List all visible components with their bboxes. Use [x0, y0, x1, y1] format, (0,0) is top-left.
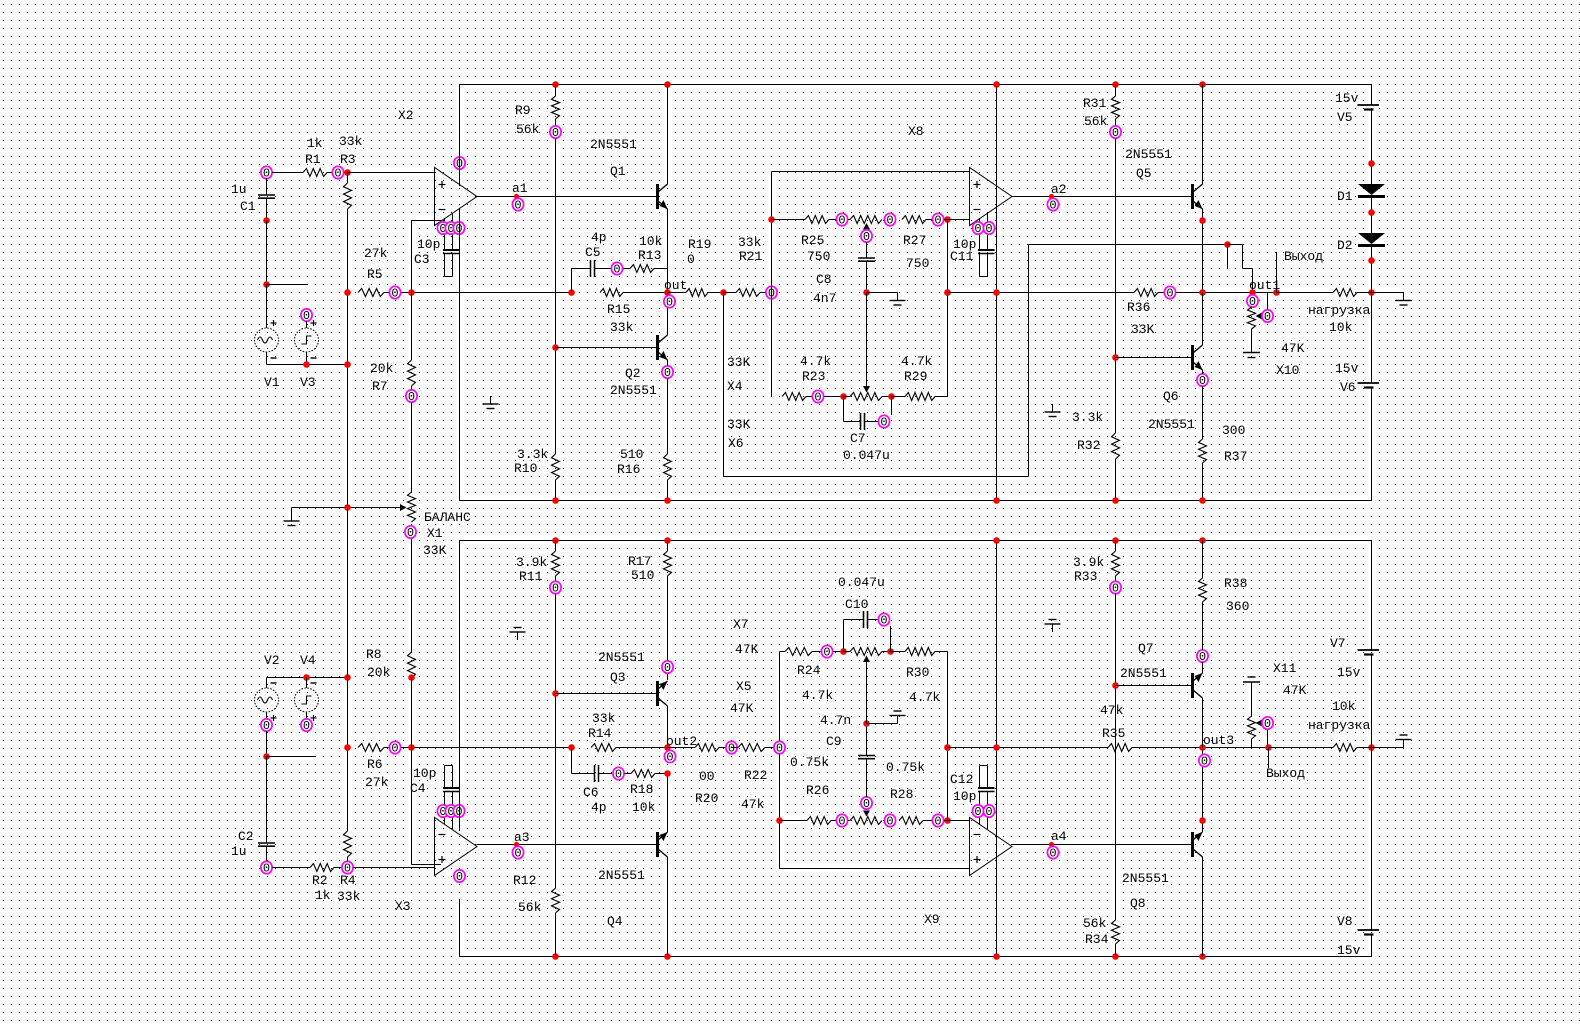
junction X8 right mid [944, 289, 951, 296]
svg-text:750: 750 [906, 256, 929, 271]
svg-text:2N5551: 2N5551 [1120, 666, 1167, 681]
junction C5 column [568, 289, 575, 296]
svg-text:0: 0 [514, 199, 521, 213]
node R6 marker [389, 741, 400, 755]
wire X9 right column [947, 652, 949, 821]
node R24 marker [821, 645, 832, 659]
wire X9 box bottom edge [780, 868, 970, 870]
resistor R15 [600, 289, 623, 297]
ground load1 [1403, 293, 1405, 301]
svg-text:510: 510 [620, 447, 643, 462]
wire V7 to out3 junction [1371, 655, 1373, 748]
node R1-R3 marker [332, 166, 343, 180]
svg-text:0: 0 [728, 742, 735, 756]
svg-text:a4: a4 [1051, 829, 1067, 844]
ground X9 [897, 716, 899, 724]
wire X11 wiper stub [1267, 730, 1269, 748]
wire top supply rail [460, 84, 1372, 86]
junction bus2 R11 [552, 537, 559, 544]
ground load2 [1403, 740, 1405, 748]
svg-text:R36: R36 [1127, 300, 1150, 315]
resistor R19 [668, 292, 687, 294]
svg-text:33K: 33K [1131, 322, 1155, 337]
svg-text:56k: 56k [518, 900, 542, 915]
junction rail Q5 collector [1199, 81, 1206, 88]
svg-text:R1: R1 [305, 152, 321, 167]
svg-text:0: 0 [1166, 287, 1173, 301]
node markers at C3 [437, 222, 448, 236]
svg-text:56k: 56k [1083, 916, 1107, 931]
junction X10 top [1249, 289, 1256, 296]
resistor R5 [358, 289, 384, 297]
svg-text:0: 0 [934, 214, 941, 228]
svg-text:1u: 1u [231, 844, 247, 859]
svg-text:C11: C11 [950, 249, 974, 264]
svg-text:Q4: Q4 [607, 914, 623, 929]
wire R5 to R7 junction [401, 292, 420, 294]
wire stub V4 bottom [267, 756, 317, 758]
svg-text:V1: V1 [264, 375, 280, 390]
svg-text:C12: C12 [950, 772, 973, 787]
svg-text:0: 0 [263, 862, 270, 876]
svg-text:33k: 33k [592, 711, 616, 726]
wire opamp X8 out to Q5 base [1012, 196, 1191, 198]
svg-text:750: 750 [807, 249, 830, 264]
svg-text:0: 0 [1049, 199, 1056, 213]
svg-text:R3: R3 [340, 152, 356, 167]
svg-text:0: 0 [974, 805, 981, 819]
wire R36 to Q6 collector [1176, 292, 1277, 294]
resistor R22 [732, 747, 739, 749]
svg-text:47K: 47K [730, 701, 754, 716]
junction C10 right [887, 648, 894, 655]
capacitor C3 [444, 218, 446, 250]
junction R16 bus [664, 497, 671, 504]
wire V2 to C2 [266, 757, 268, 844]
resistor R12 [552, 888, 560, 913]
svg-text:R10: R10 [514, 461, 537, 476]
resistor R11 [555, 541, 557, 552]
node R5 marker [389, 286, 400, 300]
svg-text:1k: 1k [307, 136, 323, 151]
capacitor C1 [266, 178, 268, 195]
resistor R9 [555, 85, 557, 97]
wire feedback loop right up [1028, 245, 1030, 477]
svg-text:4.7k: 4.7k [901, 354, 932, 369]
svg-text:R13: R13 [638, 248, 661, 263]
svg-text:56k: 56k [1084, 114, 1108, 129]
ground balance [291, 508, 293, 514]
resistor R21 [724, 292, 737, 294]
svg-text:0: 0 [985, 222, 992, 236]
resistor R18 [625, 773, 632, 775]
transistor Q4 [656, 832, 659, 857]
wire out3 row [997, 747, 1109, 749]
svg-text:X11: X11 [1273, 661, 1297, 676]
svg-text:0: 0 [886, 815, 893, 829]
svg-text:0: 0 [1264, 310, 1271, 324]
svg-text:R23: R23 [802, 369, 825, 384]
svg-text:V8: V8 [1337, 914, 1353, 929]
svg-text:0: 0 [552, 582, 559, 596]
svg-text:20k: 20k [370, 361, 394, 376]
ground near R33 [1052, 624, 1054, 632]
svg-text:0: 0 [514, 847, 521, 861]
svg-text:R38: R38 [1224, 576, 1247, 591]
svg-text:C10: C10 [845, 597, 868, 612]
svg-text:47k: 47k [1100, 703, 1124, 718]
svg-text:X4: X4 [727, 379, 743, 394]
diode D1 [1358, 184, 1385, 195]
source V3 pulse [301, 309, 312, 323]
node R27 right marker [932, 213, 943, 227]
svg-text:0: 0 [886, 214, 893, 228]
resistor R24 [780, 651, 786, 653]
junction staircase [1224, 241, 1231, 248]
wire fb node to opamp minus corner [411, 221, 413, 293]
wire X3 box top bus [460, 540, 1372, 542]
svg-text:2N5551: 2N5551 [610, 383, 657, 398]
node R7 bottom marker [406, 390, 417, 404]
svg-text:R20: R20 [695, 791, 718, 806]
junction Q8 emitter [1199, 817, 1206, 824]
potentiometer X11 [1251, 739, 1253, 748]
svg-text:10k: 10k [1332, 699, 1356, 714]
svg-text:X10: X10 [1276, 363, 1299, 378]
wire X10 wiper stub [1267, 293, 1269, 311]
wire R23 to C7 junction [824, 396, 844, 398]
junction feedback loop left [720, 289, 727, 296]
wire Vyhod stub top [1276, 252, 1278, 293]
resistor R23 [782, 393, 806, 401]
svg-text:0: 0 [303, 719, 310, 733]
wire Q6 emitter to R37 [1202, 370, 1204, 374]
svg-text:0: 0 [985, 805, 992, 819]
svg-text:C4: C4 [410, 781, 426, 796]
node pot5 right marker [884, 814, 895, 828]
wire stub to V3 plus [267, 284, 309, 286]
junction rowA right [944, 216, 951, 223]
svg-text:Q7: Q7 [1138, 641, 1154, 656]
svg-text:R16: R16 [617, 462, 640, 477]
svg-text:0: 0 [1264, 717, 1271, 731]
junction bus2 R38 [1199, 537, 1206, 544]
junction R8 bottom [408, 674, 415, 681]
wire Q2 emitter to R16 [667, 360, 669, 366]
junction V2 bottom [263, 753, 270, 760]
node R25 marker [836, 213, 847, 227]
svg-text:15v: 15v [1337, 665, 1361, 680]
svg-text:4.7k: 4.7k [909, 690, 940, 705]
svg-text:R2: R2 [312, 873, 328, 888]
potentiometer X4 top [848, 219, 850, 221]
wire out row to R36 [997, 292, 1135, 294]
resistor R16 [664, 454, 672, 480]
source V2 sine [266, 678, 268, 689]
svg-text:R7: R7 [372, 379, 388, 394]
junction top rail R3col bottom [344, 674, 351, 681]
resistor R27 [902, 216, 926, 224]
node R36 marker [1164, 286, 1175, 300]
node Q6 emitter marker [1197, 374, 1208, 388]
node R33 marker [1110, 581, 1121, 595]
svg-text:20k: 20k [367, 665, 391, 680]
junction rail Q1 collector [664, 81, 671, 88]
wire feedback loop bottom [724, 476, 1029, 478]
svg-text:4n7: 4n7 [813, 291, 836, 306]
svg-text:R28: R28 [890, 787, 913, 802]
svg-text:R33: R33 [1074, 569, 1097, 584]
wire rail corner down to V5 [1371, 85, 1373, 106]
junction C7 left [840, 393, 847, 400]
wire Q3 base row [556, 693, 657, 695]
ground X10 [1251, 329, 1253, 353]
capacitor C8 [866, 242, 868, 258]
wire V6 to bus corner [1371, 388, 1373, 501]
resistor R7 [411, 293, 413, 361]
wire V5 to D1 [1371, 110, 1373, 184]
wire rowA2 to opamp X9 [944, 820, 970, 822]
svg-text:27k: 27k [364, 246, 388, 261]
svg-text:0: 0 [880, 416, 887, 430]
node R31 marker [1110, 126, 1121, 140]
svg-text:0: 0 [823, 646, 830, 660]
junction rowA2 right [944, 817, 951, 824]
wire V8 to rail2 corner [1371, 935, 1373, 957]
junction bottom rail to R3 column [344, 361, 351, 368]
svg-text:2N5551: 2N5551 [590, 137, 637, 152]
junction D2 out [1368, 257, 1375, 264]
wire Q7 base row [1116, 685, 1192, 687]
junction out1 [1273, 289, 1280, 296]
junction V4 top [303, 674, 310, 681]
transistor Q2 [656, 335, 659, 360]
wire Q6 base row [1116, 357, 1192, 359]
wire Q2 collector to out [667, 293, 669, 336]
node out marker [664, 295, 675, 309]
svg-text:R4: R4 [340, 873, 356, 888]
wire X2 box right edge [996, 85, 998, 501]
capacitor C6 [571, 748, 573, 774]
node markers at C4 [437, 805, 448, 819]
battery V5 [1358, 104, 1380, 106]
potentiometer X7 top pot [850, 648, 882, 656]
wire R32 to bus [1115, 459, 1117, 501]
wire X1 to R8 [411, 539, 413, 652]
junction X9 right mid [944, 744, 951, 751]
svg-text:Q5: Q5 [1136, 166, 1152, 181]
op-amp X3 [435, 818, 478, 876]
node R20 marker [726, 741, 737, 755]
wire to ground right [1372, 292, 1404, 294]
junction rail2 R12 [552, 953, 559, 960]
wire R14 to out2 [616, 747, 668, 749]
potentiometer X1 BALANCE [408, 492, 416, 522]
svg-text:47k: 47k [741, 797, 765, 812]
node markers at C11 [972, 222, 983, 236]
junction V3 bottom [303, 361, 310, 368]
svg-text:a1: a1 [512, 181, 528, 196]
transistor Q6 [1191, 345, 1194, 370]
junction C12 wire [944, 744, 951, 751]
svg-text:out1: out1 [1249, 278, 1280, 293]
potentiometer X10 [1247, 295, 1258, 309]
node C2 bottom marker [261, 861, 272, 875]
junction R5-R7-C3 node [408, 289, 415, 296]
wire V2 V4 top rail [267, 677, 348, 679]
svg-text:15v: 15v [1335, 361, 1359, 376]
wire fb node down to opamp corner [411, 748, 413, 865]
junction Q6 base [1112, 354, 1119, 361]
svg-text:X3: X3 [395, 899, 411, 914]
resistor load2 10k [1333, 744, 1357, 752]
junction V1 plus node [263, 281, 270, 288]
svg-text:2N5551: 2N5551 [598, 868, 645, 883]
wire Q4 collector to rail2 [667, 857, 669, 957]
svg-text:2N5551: 2N5551 [1125, 147, 1172, 162]
svg-text:R5: R5 [367, 267, 383, 282]
wire X2 box left edge [459, 208, 461, 501]
junction box edge out3 [993, 744, 1000, 751]
svg-text:3.9k: 3.9k [516, 555, 547, 570]
svg-text:R12: R12 [513, 873, 536, 888]
svg-text:X7: X7 [733, 617, 749, 632]
node R23 marker [812, 390, 823, 404]
svg-text:33K: 33K [423, 543, 447, 558]
node above opamp marker [454, 157, 465, 171]
wire X2 box bottom bus [460, 500, 1372, 502]
wire R8 bottom to R6 junction [411, 678, 413, 748]
svg-text:33k: 33k [738, 235, 762, 250]
junction C10 left [840, 648, 847, 655]
resistor R34 [1112, 920, 1120, 944]
wire C9 to ground [867, 723, 898, 725]
wire X3 box right edge [996, 541, 998, 957]
junction R10 bus2 [993, 497, 1000, 504]
junction D1 D2 [1368, 209, 1375, 216]
svg-text:R8: R8 [366, 647, 382, 662]
capacitor C9 [866, 724, 868, 756]
node R11 marker [550, 581, 561, 595]
svg-text:R30: R30 [906, 665, 929, 680]
resistor R13 [623, 268, 630, 270]
junction R4 top [344, 744, 351, 751]
svg-text:0: 0 [391, 742, 398, 756]
wire bottom supply rail [460, 956, 1372, 958]
wire rowA to opamp X8 [944, 219, 970, 221]
wire Q5 emitter down [1202, 209, 1204, 293]
capacitor C12 [980, 765, 988, 767]
resistor R30 [891, 651, 906, 653]
svg-text:R21: R21 [739, 249, 763, 264]
wire R17 to Q3 emitter [667, 576, 669, 680]
svg-text:2N5551: 2N5551 [1148, 417, 1195, 432]
potentiometer X6 bottom [850, 393, 882, 401]
junction rail2 box right [993, 953, 1000, 960]
svg-text:БАЛАНС: БАЛАНС [424, 510, 471, 525]
svg-text:0: 0 [664, 661, 671, 675]
svg-text:C9: C9 [826, 734, 842, 749]
wire Q7 collector to out3 [1202, 698, 1204, 748]
svg-text:R37: R37 [1224, 449, 1247, 464]
junction V5 D1 [1368, 160, 1375, 167]
wire C2 to R2 [272, 867, 310, 869]
junction rail box right [993, 81, 1000, 88]
battery V6 [1358, 382, 1380, 384]
source V1 sine [266, 285, 268, 329]
svg-text:10p: 10p [953, 789, 976, 804]
junction R5 left [344, 289, 351, 296]
resistor R8 [408, 652, 416, 678]
svg-text:3.9k: 3.9k [1073, 555, 1104, 570]
junction rail2 R34 [1112, 953, 1119, 960]
svg-text:Выход: Выход [1266, 766, 1305, 781]
node R28 right marker [932, 814, 943, 828]
junction Q2 base [552, 344, 559, 351]
svg-text:0: 0 [666, 751, 673, 765]
svg-text:0.75k: 0.75k [790, 755, 829, 770]
resistor R1 [303, 169, 327, 177]
capacitor C4 [445, 765, 453, 767]
transistor Q3 [656, 681, 659, 706]
node C6-R18 marker [613, 767, 624, 781]
ground X3 area [517, 632, 519, 640]
svg-text:300: 300 [1222, 423, 1245, 438]
junction C1 bottom [263, 217, 270, 224]
svg-text:56k: 56k [516, 122, 540, 137]
junction rail R9 [552, 81, 559, 88]
junction bus2 R33 [1112, 537, 1119, 544]
svg-text:R6: R6 [367, 757, 383, 772]
wire staircase stub [1227, 245, 1229, 269]
junction load2 right [1368, 744, 1375, 751]
resistor R10 [552, 454, 560, 480]
wire R3col mid section [347, 508, 349, 748]
transistor Q5 [1191, 184, 1194, 209]
resistor R6 [358, 744, 384, 752]
wire opamp X9 out to Q8 base [1012, 844, 1191, 846]
transistor Q8 [1191, 832, 1194, 857]
svg-text:C3: C3 [414, 252, 430, 267]
svg-text:33k: 33k [339, 134, 363, 149]
svg-text:0.047u: 0.047u [843, 448, 890, 463]
resistor R4 [347, 748, 349, 832]
wire Q8 emitter up [1202, 748, 1204, 833]
svg-text:2N5551: 2N5551 [598, 650, 645, 665]
op-amp X2 [435, 168, 478, 226]
junction bus2 R17 [664, 537, 671, 544]
transistor Q7 [1191, 673, 1194, 698]
svg-text:Q1: Q1 [610, 164, 626, 179]
resistor R36 [1134, 289, 1158, 297]
svg-text:Выход: Выход [1284, 249, 1323, 264]
svg-text:C1: C1 [240, 199, 256, 214]
wire R3 to balance junction [347, 209, 349, 508]
wire R6 to fb junction [401, 747, 420, 749]
wire Q7 emitter to R38 [1202, 662, 1204, 673]
wire Q1 collector to rail [667, 85, 669, 185]
svg-text:X8: X8 [908, 124, 924, 139]
op-amp X9 [970, 818, 1013, 876]
wire R3 node to opamp X2 +in [348, 172, 435, 174]
source V4 pulse [306, 678, 308, 689]
resistor R38 [1199, 578, 1207, 602]
resistor R28 [899, 817, 923, 825]
svg-text:0.047u: 0.047u [838, 575, 885, 590]
wire rail stub to opamp X2 [459, 85, 461, 187]
svg-text:3.3k: 3.3k [517, 447, 548, 462]
svg-text:47K: 47K [1283, 683, 1307, 698]
